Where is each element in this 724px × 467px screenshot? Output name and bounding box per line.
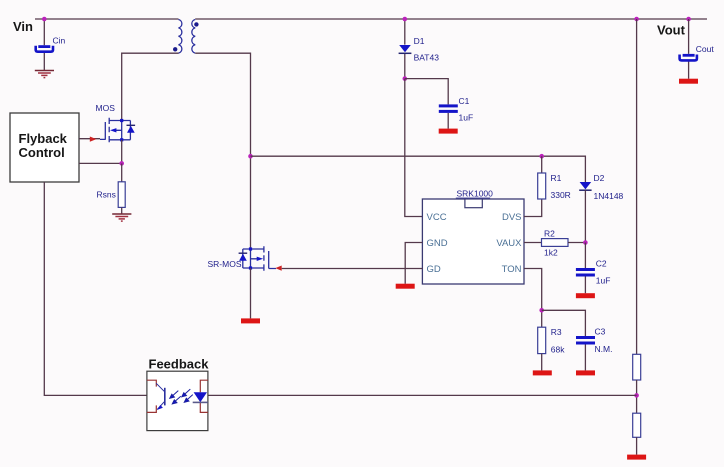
wire divider middle [636,380,638,413]
wire Cout drop [688,19,690,79]
junction Cout tap [686,17,691,22]
resistor Rsns [118,182,125,208]
wire divider bottom [636,437,638,454]
svg-text:68k: 68k [551,345,565,355]
ground bar (under C3) [576,370,595,375]
wire TON to C3 [542,310,586,336]
ground bar (under C1) [439,129,458,134]
ground earth (under Cin) [35,71,54,78]
svg-text:VAUX: VAUX [496,238,522,249]
wire GND pin to ground [405,243,422,284]
svg-text:C2: C2 [596,259,607,269]
wire D1 drop [404,19,406,79]
svg-text:GD: GD [427,264,441,275]
wire Flyback gate output [79,138,100,140]
svg-text:C3: C3 [595,327,606,337]
ground bar (under R3) [533,370,552,375]
transformer primary winding [179,20,182,54]
transformer secondary polarity dot [194,22,198,26]
svg-text:SRK1000: SRK1000 [457,189,494,199]
wire Flyback bottom to Feedback [44,182,147,395]
svg-text:TON: TON [502,264,522,275]
diode D2 [579,182,591,190]
chip SRK1000 [422,199,524,284]
transformer primary polarity dot [173,47,177,51]
junction D2-R2-C2 [583,240,588,245]
svg-text:Control: Control [19,145,65,160]
ground earth (under Rsns) [112,214,131,221]
svg-text:Feedback: Feedback [149,357,210,372]
junction feedback divider [634,393,639,398]
svg-text:Vout: Vout [657,23,686,38]
svg-text:DVS: DVS [502,212,522,223]
svg-text:1k2: 1k2 [544,248,558,258]
optocoupler light arrows [170,389,193,404]
wire primary bottom to MOS drain [122,53,179,120]
svg-text:D2: D2 [594,173,605,183]
resistor R1 [538,173,546,199]
wire MOS source down [121,140,123,164]
wire Rsns top [121,163,123,181]
capacitor C1 [439,104,458,113]
block Flyback Control [10,113,79,182]
junction source-Rsns [119,161,124,166]
wire secondary bottom to SR-MOS drain [195,53,250,249]
capacitor Cout [680,54,697,61]
svg-text:1uF: 1uF [596,276,611,286]
junction Cin tap [42,17,47,22]
wire C2 drop [584,243,586,294]
svg-text:SR-MOS: SR-MOS [208,259,242,269]
svg-text:R1: R1 [551,173,562,183]
capacitor C3 [576,336,595,345]
wire divider drop [636,19,638,354]
capacitor Cin [36,45,53,52]
svg-text:Cout: Cout [696,44,715,54]
resistor divider lower [633,413,641,437]
wire R3 bottom [541,354,543,371]
label SRK1000 [456,189,493,199]
wire R1 top [541,156,543,173]
wire GD rail [282,268,423,270]
diode D1 [399,45,412,53]
svg-text:1uF: 1uF [459,113,474,123]
junction R1 top [539,154,544,159]
arrow SR gate (red, left) [275,266,281,271]
wire D2 cathode down [584,190,586,242]
svg-text:Cin: Cin [53,35,66,45]
optocoupler phototransistor [156,383,165,410]
wire R2 to junction [568,242,585,244]
resistor R3 [538,327,546,353]
wire bottom rail (Feedback to divider) [208,394,637,396]
junction D1-C1-VCC [403,76,408,81]
wire Flyback sense output [79,162,122,164]
wire Cin drop [43,19,45,70]
junction TON-R3-C3 [539,308,544,313]
svg-text:R3: R3 [551,327,562,337]
ground bar (under Cout) [679,79,698,84]
resistor divider upper [633,354,641,380]
arrow gate (red, right) [90,137,97,142]
wire Rsns bottom [121,207,123,213]
svg-text:Rsns: Rsns [97,190,116,200]
svg-text:VCC: VCC [427,212,447,223]
junction divider tap (top rail) [634,17,639,22]
transformer secondary winding [192,20,195,54]
svg-text:GND: GND [427,238,448,249]
svg-text:330R: 330R [551,190,571,200]
svg-text:MOS: MOS [96,103,116,113]
svg-text:D1: D1 [414,36,425,46]
optocoupler LED [193,392,208,402]
wire top rail left (Vin to transformer primary) [35,18,179,20]
svg-text:N.M.: N.M. [595,344,613,354]
svg-text:Vin: Vin [13,19,33,34]
svg-text:BAT43: BAT43 [414,53,440,63]
resistor R2 [542,239,569,247]
wire C1 branch [405,79,448,129]
wire VCC feed [405,79,423,217]
capacitor C2 [576,268,595,277]
junction secondary DVS tap [248,154,253,159]
svg-text:Flyback: Flyback [19,131,68,146]
wire SR-MOS source down [250,268,252,318]
ground bar (under SR-MOS) [241,318,260,323]
svg-text:C1: C1 [459,96,470,106]
block Feedback (optocoupler) [147,371,208,430]
wire DVS rail [251,156,586,182]
ground bar (GND pin) [396,284,415,289]
junction D1 tap [403,17,408,22]
wire DVS pin to R1 [524,199,542,217]
wire VAUX pin stub [524,242,542,244]
optocoupler pin brackets [147,380,208,412]
wire TON pin down [524,269,542,328]
svg-text:R2: R2 [544,229,555,239]
ground bar (under divider) [627,455,646,460]
wire C3 bottom [584,345,586,371]
ground bar (under C2) [576,293,595,298]
transistor SR-MOS [239,246,276,270]
svg-text:1N4148: 1N4148 [594,191,624,201]
wire top rail right (transformer secondary to Vout) [195,18,707,20]
transistor MOS [100,118,135,143]
